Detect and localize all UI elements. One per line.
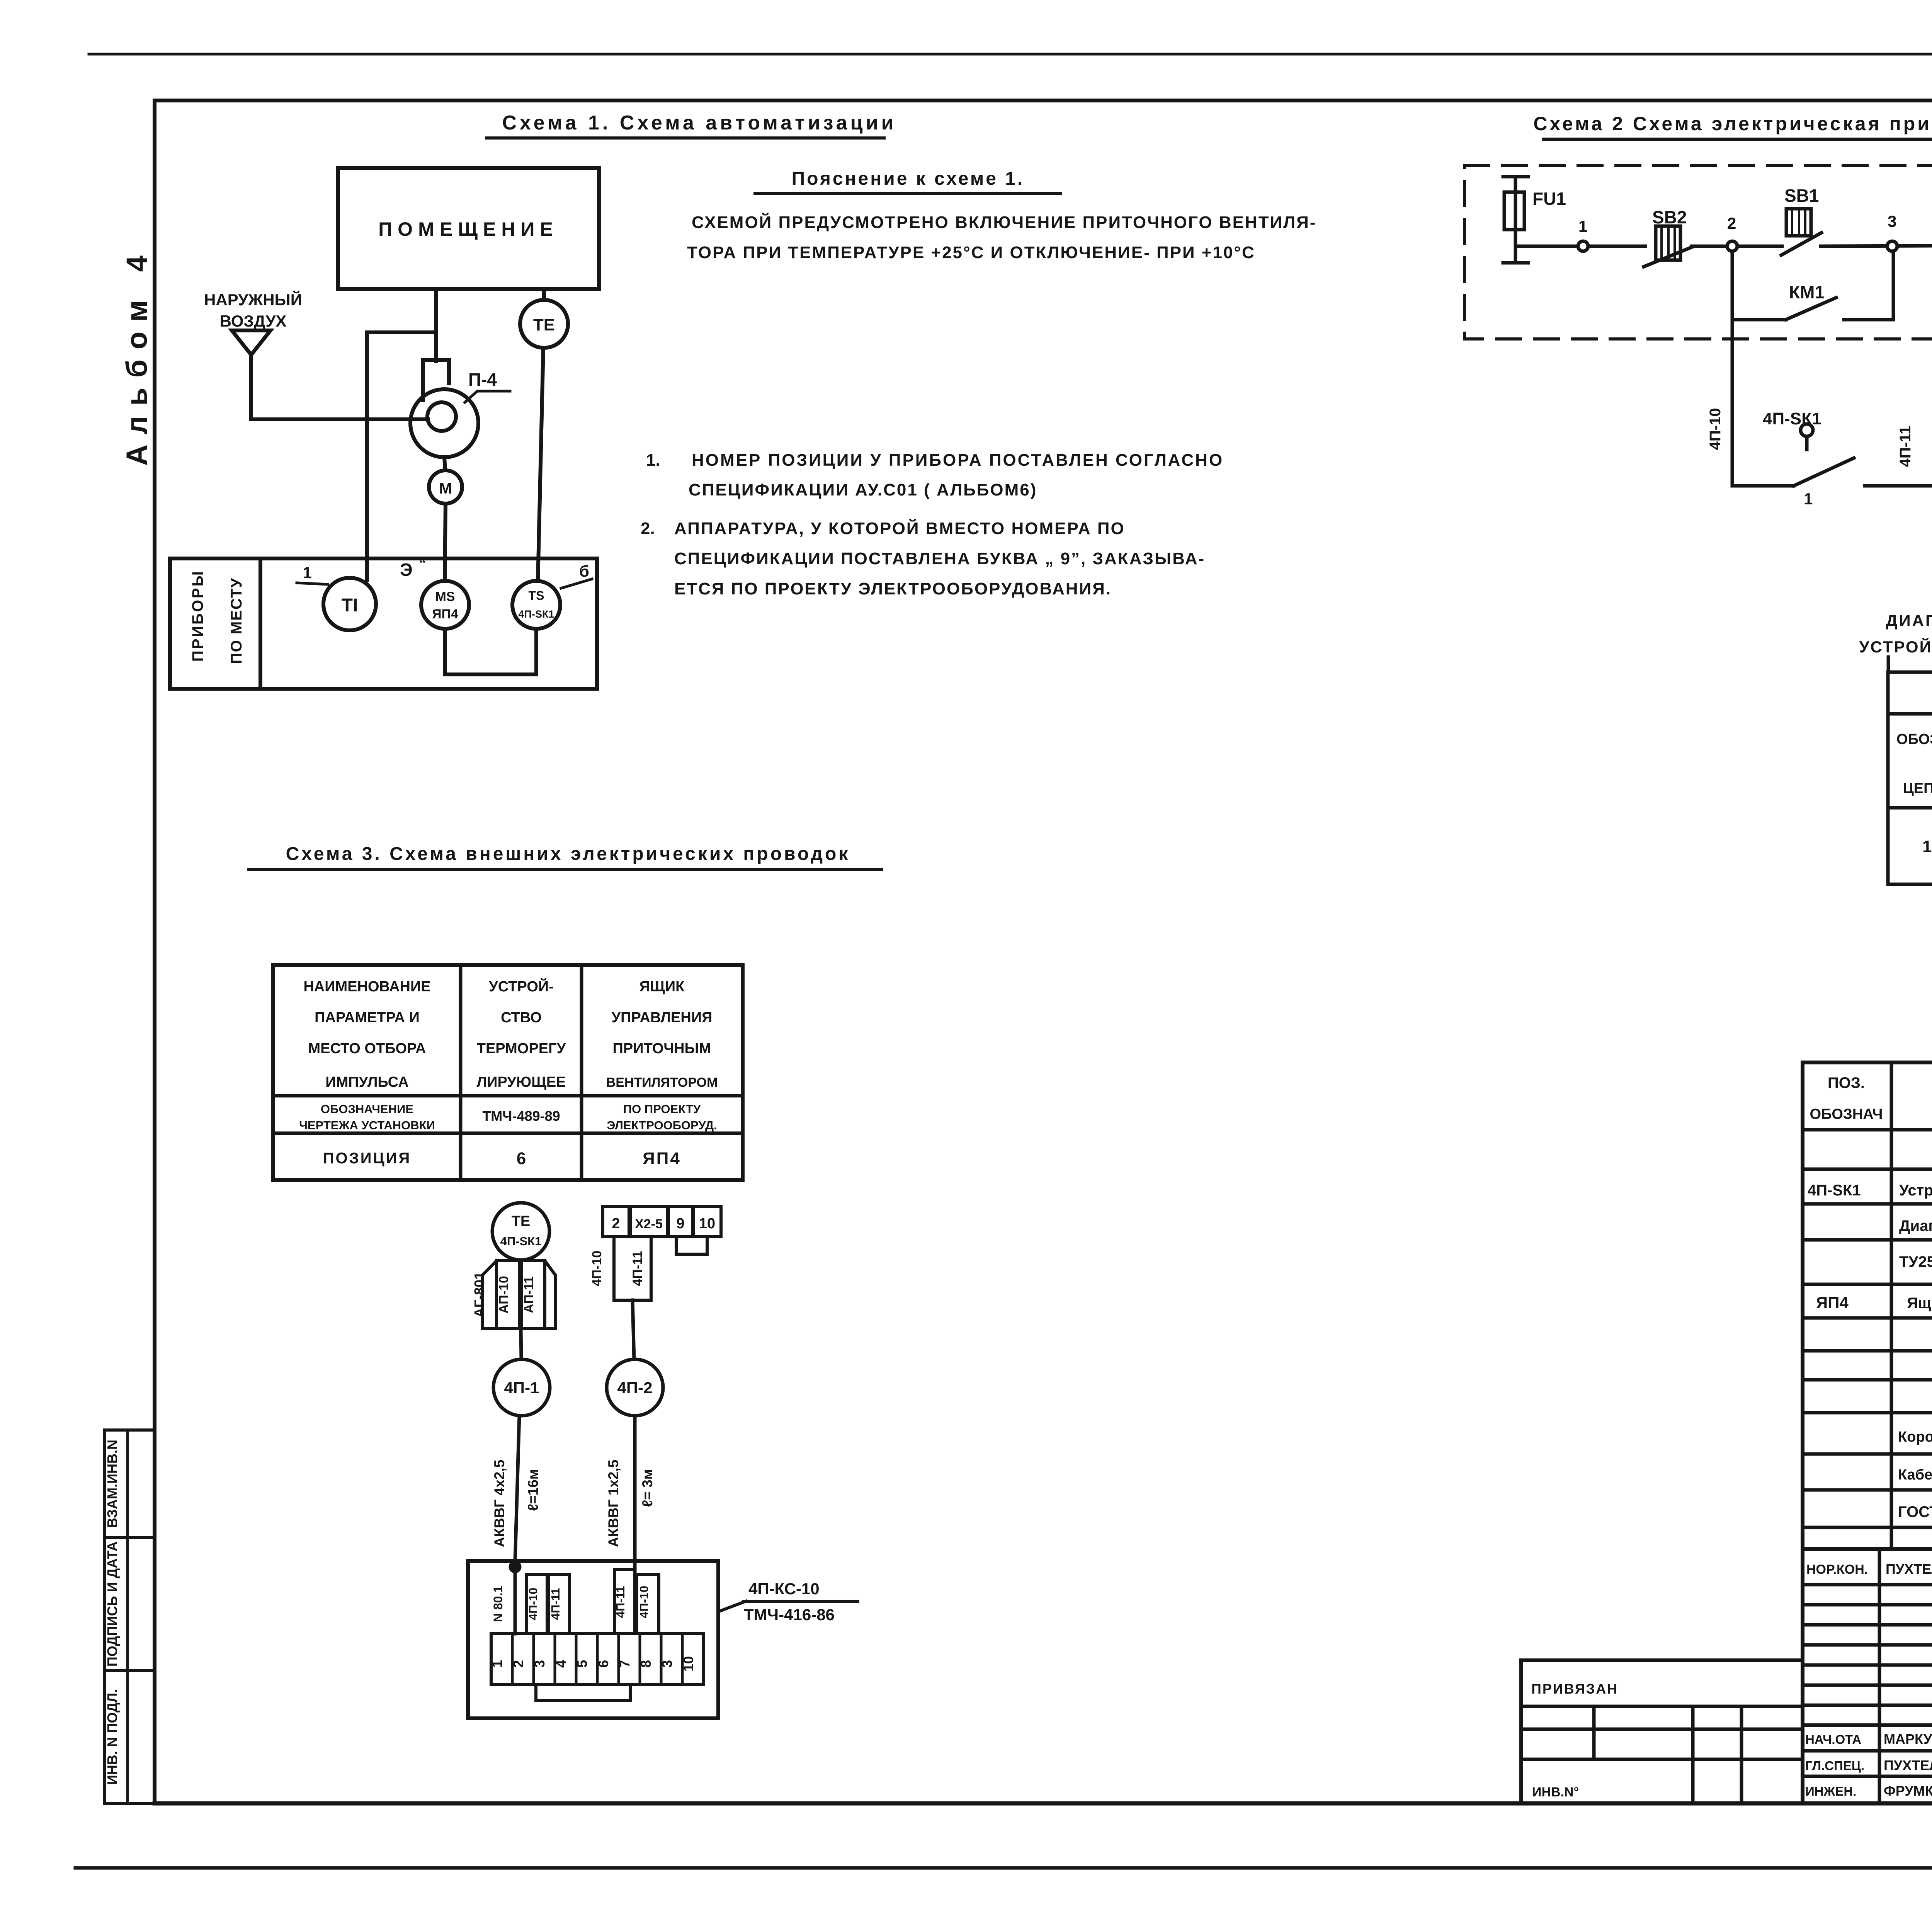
svg-text:ОБОЗНАЧЕНИЕ: ОБОЗНАЧЕНИЕ <box>321 1102 413 1116</box>
svg-text:ЧЕРТЕЖА УСТАНОВКИ: ЧЕРТЕЖА УСТАНОВКИ <box>299 1119 435 1132</box>
svg-text:SB2: SB2 <box>1652 207 1687 227</box>
svg-text:ДИАГРАММА РАБОТЫ КОНТАКТА: ДИАГРАММА РАБОТЫ КОНТАКТА <box>1886 611 1932 630</box>
svg-text:СПЕЦИФИКАЦИИ ПОСТАВЛЕНА БУКВ: СПЕЦИФИКАЦИИ ПОСТАВЛЕНА БУКВА „ 9”, ЗАКА… <box>674 549 1205 568</box>
svg-text:ТЕРМОРЕГУ: ТЕРМОРЕГУ <box>477 1040 566 1057</box>
svg-text:8: 8 <box>638 1660 654 1668</box>
svg-text:SB1: SB1 <box>1784 186 1819 206</box>
svg-text:АППАРАТУРА, У КОТОРОЙ ВМЕСТО: АППАРАТУРА, У КОТОРОЙ ВМЕСТО НОМЕРА ПО <box>674 518 1125 538</box>
svg-text:Диапазон температур 0÷+100°С: Диапазон температур 0÷+100°С <box>1899 1217 1932 1234</box>
svg-text:ВЗАМ.ИНВ.N: ВЗАМ.ИНВ.N <box>104 1440 120 1528</box>
svg-text:4П-11: 4П-11 <box>630 1251 645 1286</box>
svg-text:4П-SК1: 4П-SК1 <box>500 1234 542 1248</box>
svg-text:ℓ=16м: ℓ=16м <box>525 1469 541 1511</box>
svg-text:ПРИВЯЗАН: ПРИВЯЗАН <box>1531 1681 1618 1697</box>
svg-text:ТS: ТS <box>529 589 544 603</box>
svg-text:ЯП4: ЯП4 <box>432 607 458 621</box>
svg-text:НАЧ.ОТА: НАЧ.ОТА <box>1805 1732 1861 1747</box>
svg-text:М: М <box>439 480 452 497</box>
svg-text:4П-11: 4П-11 <box>614 1586 627 1618</box>
svg-text:3: 3 <box>1888 212 1896 230</box>
svg-text:СТВО: СТВО <box>501 1010 542 1026</box>
svg-text:ПАРАМЕТРА И: ПАРАМЕТРА И <box>315 1010 420 1026</box>
svg-text:ИНВ. N ПОДЛ.: ИНВ. N ПОДЛ. <box>104 1689 120 1785</box>
svg-text:4П-11: 4П-11 <box>549 1588 562 1620</box>
svg-text:МЕСТО ОТБОРА: МЕСТО ОТБОРА <box>308 1040 426 1057</box>
svg-text:1: 1 <box>1922 837 1932 856</box>
svg-text:ВЕНТИЛЯТОРОМ: ВЕНТИЛЯТОРОМ <box>606 1075 718 1090</box>
svg-text:4П-SК1: 4П-SК1 <box>1808 1182 1861 1199</box>
svg-text:4П-SК1: 4П-SК1 <box>1763 409 1821 428</box>
svg-text:4П-10: 4П-10 <box>637 1586 651 1618</box>
svg-text:2.: 2. <box>641 519 655 538</box>
svg-text:ТЕ: ТЕ <box>512 1213 531 1229</box>
svg-text:1: 1 <box>1578 217 1587 235</box>
svg-text:4П-10: 4П-10 <box>1707 408 1724 450</box>
svg-text:Схема 3. Схема внешних элект: Схема 3. Схема внешних электрических про… <box>286 844 850 864</box>
svg-text:НАИМЕНОВАНИЕ: НАИМЕНОВАНИЕ <box>303 979 430 995</box>
svg-text:ОБОЗН.: ОБОЗН. <box>1896 731 1932 747</box>
svg-text:Схема 1. Схема автоматизации: Схема 1. Схема автоматизации <box>502 112 896 134</box>
svg-text:б: б <box>579 562 589 580</box>
svg-text:ТI: ТI <box>342 595 358 616</box>
svg-text:АП-11: АП-11 <box>522 1276 536 1313</box>
svg-text:НОМЕР ПОЗИЦИИ У ПРИБОРА ПО: НОМЕР ПОЗИЦИИ У ПРИБОРА ПОСТАВЛЕН СОГЛАС… <box>692 451 1224 470</box>
svg-text:N 80.1: N 80.1 <box>491 1586 505 1622</box>
svg-text:МS: МS <box>435 589 455 604</box>
svg-text:4П-2: 4П-2 <box>617 1379 653 1397</box>
svg-text:7: 7 <box>617 1660 633 1668</box>
svg-text:FU1: FU1 <box>1532 189 1566 209</box>
svg-text:УСТРОЙСТВА ТЕРМОРЕГУЛИРУЮЩЕГО: УСТРОЙСТВА ТЕРМОРЕГУЛИРУЮЩЕГО 4П-SК4 <box>1859 637 1932 656</box>
svg-text:10: 10 <box>680 1656 696 1672</box>
svg-text:ПОМЕЩЕНИЕ: ПОМЕЩЕНИЕ <box>378 218 558 240</box>
svg-text:ПРИТОЧНЫМ: ПРИТОЧНЫМ <box>613 1040 711 1057</box>
svg-text:ПУХТЕЛЬ: ПУХТЕЛЬ <box>1884 1757 1932 1773</box>
svg-text:4П-10: 4П-10 <box>590 1251 604 1287</box>
svg-text:6: 6 <box>517 1149 526 1168</box>
svg-text:1: 1 <box>489 1660 505 1668</box>
svg-text:2: 2 <box>510 1660 526 1668</box>
svg-text:ГОСТ1508-78*Е: ГОСТ1508-78*Е <box>1898 1503 1932 1520</box>
svg-text:ЯП4: ЯП4 <box>1816 1294 1849 1312</box>
svg-text:2: 2 <box>1727 214 1736 232</box>
svg-text:Кабель контрольный с алюминиев: Кабель контрольный с алюминиевыми жилами <box>1898 1467 1932 1483</box>
svg-text:ЕТСЯ ПО ПРОЕКТУ ЭЛЕКТРООБОР: ЕТСЯ ПО ПРОЕКТУ ЭЛЕКТРООБОРУДОВАНИЯ. <box>674 579 1112 598</box>
svg-text:Альбом 4: Альбом 4 <box>121 245 153 466</box>
svg-text:МАРКУЦКИЙ: МАРКУЦКИЙ <box>1884 1731 1932 1747</box>
svg-text:5: 5 <box>574 1660 590 1668</box>
svg-text:АГ-801: АГ-801 <box>471 1272 487 1318</box>
svg-text:ТМЧ-416-86: ТМЧ-416-86 <box>744 1605 835 1624</box>
svg-text:НАРУЖНЫЙ: НАРУЖНЫЙ <box>204 290 302 309</box>
svg-text:УПРАВЛЕНИЯ: УПРАВЛЕНИЯ <box>612 1010 713 1026</box>
svg-text:“: “ <box>419 555 426 571</box>
svg-text:ПО МЕСТУ: ПО МЕСТУ <box>228 577 245 664</box>
svg-text:ТЕ: ТЕ <box>533 315 555 334</box>
svg-text:П-4: П-4 <box>468 369 497 390</box>
svg-text:ПОЗИЦИЯ: ПОЗИЦИЯ <box>323 1150 411 1167</box>
svg-text:1: 1 <box>303 564 311 582</box>
svg-text:ТОРА ПРИ ТЕМПЕРАТУРЕ +25°С: ТОРА ПРИ ТЕМПЕРАТУРЕ +25°С И ОТКЛЮЧЕНИЕ-… <box>687 243 1255 262</box>
svg-text:АКВВГ 1х2,5: АКВВГ 1х2,5 <box>605 1460 621 1548</box>
svg-text:Схема 2 Схема электрическая п: Схема 2 Схема электрическая принципиальн… <box>1533 113 1932 134</box>
svg-text:ФРУМКЕР: ФРУМКЕР <box>1884 1783 1932 1799</box>
svg-text:ТМЧ-489-89: ТМЧ-489-89 <box>482 1108 560 1124</box>
svg-text:СПЕЦИФИКАЦИИ АУ.С01 ( АЛЬБОМ6: СПЕЦИФИКАЦИИ АУ.С01 ( АЛЬБОМ6) <box>689 480 1037 499</box>
svg-text:ИНВ.N°: ИНВ.N° <box>1532 1785 1579 1800</box>
svg-text:3: 3 <box>659 1660 675 1668</box>
svg-text:4П-1: 4П-1 <box>504 1379 539 1397</box>
svg-text:АП-10: АП-10 <box>497 1276 511 1314</box>
svg-text:X2-5: X2-5 <box>635 1217 663 1231</box>
svg-text:4П-SК1: 4П-SК1 <box>519 608 554 620</box>
svg-text:6: 6 <box>595 1660 611 1668</box>
svg-text:3: 3 <box>532 1660 548 1668</box>
svg-text:10: 10 <box>699 1216 715 1232</box>
svg-text:ГЛ.СПЕЦ.: ГЛ.СПЕЦ. <box>1805 1759 1864 1773</box>
svg-text:Устройсто терморегулирующее Т: Устройсто терморегулирующее ТУДЭ-2 <box>1899 1182 1932 1199</box>
svg-text:Э: Э <box>400 560 413 580</box>
svg-text:ВОЗДУХ: ВОЗДУХ <box>220 312 287 330</box>
svg-text:КМ1: КМ1 <box>1789 282 1825 302</box>
svg-text:НОР.КОН.: НОР.КОН. <box>1806 1562 1868 1577</box>
svg-text:ЯП4: ЯП4 <box>643 1149 681 1168</box>
svg-text:4П-10: 4П-10 <box>526 1588 540 1620</box>
svg-text:ПО ПРОЕКТУ: ПО ПРОЕКТУ <box>623 1102 701 1116</box>
svg-text:ИНЖЕН.: ИНЖЕН. <box>1805 1784 1856 1798</box>
svg-text:УСТРОЙ-: УСТРОЙ- <box>489 977 554 995</box>
svg-text:ЦЕПИ: ЦЕПИ <box>1903 780 1932 797</box>
svg-text:ЭЛЕКТРООБОРУД.: ЭЛЕКТРООБОРУД. <box>607 1119 717 1132</box>
svg-text:ПУХТЕЛЬ: ПУХТЕЛЬ <box>1886 1561 1932 1577</box>
svg-text:1.: 1. <box>646 451 660 470</box>
svg-text:ПРИБОРЫ: ПРИБОРЫ <box>189 570 206 662</box>
svg-text:ОБОЗНАЧ: ОБОЗНАЧ <box>1810 1106 1883 1122</box>
svg-text:1: 1 <box>1804 490 1813 508</box>
svg-text:Пояснение к схеме 1.: Пояснение к схеме 1. <box>792 169 1025 189</box>
svg-text:9: 9 <box>676 1216 684 1232</box>
svg-text:ПОДПИСЬ И ДАТА: ПОДПИСЬ И ДАТА <box>104 1541 120 1667</box>
svg-text:ИМПУЛЬСА: ИМПУЛЬСА <box>325 1074 408 1090</box>
svg-text:4: 4 <box>553 1660 569 1668</box>
svg-text:ℓ= 3м: ℓ= 3м <box>639 1469 655 1507</box>
svg-text:ТУ25-7223.0001-88: ТУ25-7223.0001-88 <box>1899 1253 1932 1270</box>
svg-text:СХЕМОЙ ПРЕДУСМОТРЕНО ВКЛЮЧЕН: СХЕМОЙ ПРЕДУСМОТРЕНО ВКЛЮЧЕНИЕ ПРИТОЧНОГ… <box>692 212 1316 232</box>
svg-text:АКВВГ 4х2,5: АКВВГ 4х2,5 <box>492 1460 507 1548</box>
svg-text:2: 2 <box>612 1216 620 1232</box>
svg-text:ЯЩИК: ЯЩИК <box>639 979 685 995</box>
svg-text:Ящик управления: Ящик управления <box>1907 1295 1932 1312</box>
svg-text:ЛИРУЮЩЕЕ: ЛИРУЮЩЕЕ <box>476 1074 566 1090</box>
svg-text:4П-КС-10: 4П-КС-10 <box>748 1580 820 1598</box>
svg-text:Коробка соединительнаяТУ36,256: Коробка соединительнаяТУ36,2568-83F КС-1… <box>1898 1429 1932 1445</box>
svg-text:ПОЗ.: ПОЗ. <box>1828 1074 1865 1091</box>
svg-text:4П-11: 4П-11 <box>1897 426 1914 467</box>
